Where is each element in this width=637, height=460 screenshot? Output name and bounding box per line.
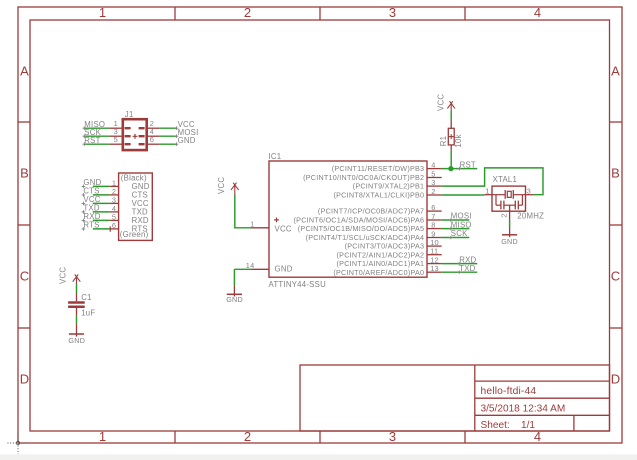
FTDI pin 1 GND: [110, 178, 150, 191]
svg-text:1uF: 1uF: [81, 309, 95, 318]
IC1 pin 8 PA5: [298, 220, 442, 233]
IC1 pin 11 PA2: [337, 247, 442, 260]
svg-text:IC1: IC1: [269, 152, 282, 161]
svg-text:SCK: SCK: [451, 229, 468, 238]
net label RST: [458, 160, 476, 170]
svg-text:6: 6: [112, 221, 116, 230]
wire IC1 pin 14 to ground: [234, 269, 251, 285]
connector J1 label: [125, 110, 134, 119]
net label TXD: [457, 264, 475, 274]
capacitor C1: [68, 294, 85, 315]
svg-text:TXD: TXD: [459, 264, 475, 273]
net label SCK: [449, 229, 468, 239]
svg-text:2: 2: [499, 213, 508, 217]
svg-text:11: 11: [430, 247, 438, 256]
wire VCC to R1: [450, 111, 452, 120]
svg-text:GND: GND: [501, 237, 518, 246]
svg-text:RTS: RTS: [83, 221, 99, 230]
IC1 body: [269, 161, 427, 277]
wire C1 to ground: [76, 315, 78, 323]
frame row labels right: [611, 64, 620, 387]
FTDI pin 6 RTS: [110, 221, 148, 234]
net label MISO: [449, 220, 472, 230]
svg-text:1: 1: [99, 5, 106, 20]
connector FTDI label (Black): [121, 174, 147, 183]
svg-text:14: 14: [246, 261, 255, 270]
XTAL1 pin 3: [526, 187, 534, 196]
svg-text:3/5/2018 12:34 AM: 3/5/2018 12:34 AM: [481, 403, 566, 414]
IC1 pin 5 PB2: [303, 169, 442, 182]
frame column labels top: [99, 5, 541, 20]
svg-text:(PCINT7/ICP/OC0B/ADC7)PA7: (PCINT7/ICP/OC0B/ADC7)PA7: [318, 207, 424, 216]
svg-text:1: 1: [250, 219, 254, 228]
svg-text:D: D: [20, 372, 29, 387]
wire IC1 pin 3 to XTAL1 pin 3: [442, 168, 543, 195]
svg-text:(PCINT2/AIN1/ADC2)PA2: (PCINT2/AIN1/ADC2)PA2: [337, 250, 425, 259]
svg-text:R1: R1: [439, 136, 448, 146]
svg-text:3: 3: [431, 178, 435, 187]
J1 pin 6: [148, 135, 160, 144]
XTAL1 label: [493, 175, 518, 184]
svg-text:B: B: [20, 166, 29, 181]
svg-text:8: 8: [431, 220, 435, 229]
svg-text:XTAL1: XTAL1: [493, 175, 518, 184]
wire net MOSI from J1: [159, 135, 176, 137]
IC1 value ATTINY44-SSU: [269, 280, 327, 289]
wire net TXD: [442, 271, 478, 273]
svg-text:GND: GND: [275, 265, 293, 274]
J1 pin 5: [109, 135, 121, 144]
connector J1 body: [123, 119, 147, 150]
svg-text:2: 2: [244, 429, 251, 444]
svg-text:20MHZ: 20MHZ: [517, 212, 544, 221]
title block date: [481, 403, 566, 414]
ground below C1: [68, 324, 85, 345]
XTAL1 pin 2: [499, 205, 509, 219]
svg-text:2: 2: [244, 5, 251, 20]
IC1 origin cross: [274, 218, 279, 223]
svg-text:1: 1: [485, 187, 489, 196]
connector FTDI body: [119, 173, 153, 240]
net label TXD: [82, 204, 100, 214]
resistor R1: [448, 119, 454, 150]
wire net RST to J1: [84, 143, 109, 145]
svg-text:(PCINT9/XTAL2)PB1: (PCINT9/XTAL2)PB1: [353, 182, 425, 191]
origin crosshair: [8, 432, 30, 454]
wire net GND to FTDI: [93, 185, 110, 187]
svg-text:10k: 10k: [454, 134, 463, 147]
svg-text:Sheet:: Sheet:: [481, 420, 510, 431]
XTAL1 crystal element: [492, 190, 526, 199]
IC1 pin 14 GND: [246, 261, 269, 270]
value 1uF: [81, 309, 95, 318]
wire net VCC to FTDI: [93, 202, 110, 204]
net label MOSI: [449, 212, 472, 222]
wire net MISO: [442, 228, 470, 230]
svg-text:VCC: VCC: [275, 224, 292, 233]
J1 pin 4: [148, 127, 160, 136]
svg-text:J1: J1: [125, 110, 134, 119]
J1 pin 3: [109, 127, 121, 136]
connector FTDI label (Green): [120, 230, 149, 239]
value 20MHZ: [517, 212, 544, 221]
IC1 pin 3 PB1: [353, 178, 442, 191]
net label VCC: [175, 120, 195, 130]
J1 pin 1: [109, 119, 121, 128]
resonator XTAL1 body: [492, 186, 526, 211]
svg-text:VCC: VCC: [217, 177, 226, 194]
svg-text:C1: C1: [81, 293, 91, 302]
svg-text:5: 5: [114, 135, 118, 144]
svg-text:RTS: RTS: [132, 225, 148, 234]
J1 pin 2: [148, 119, 160, 128]
connector J1 origin cross: [133, 134, 138, 139]
ground below IC1: [226, 285, 243, 304]
svg-text:A: A: [611, 64, 620, 79]
wire net VCC from J1: [159, 127, 176, 129]
svg-text:1: 1: [99, 429, 106, 444]
value 10k: [454, 134, 463, 147]
wire net TXD to FTDI: [93, 211, 110, 213]
svg-text:GND: GND: [178, 136, 196, 145]
IC1 label: [269, 152, 282, 161]
title block: [300, 365, 610, 431]
svg-text:D: D: [611, 372, 620, 387]
wire net RTS to FTDI: [93, 228, 110, 230]
net label GND: [175, 136, 196, 146]
svg-text:hello-ftdi-44: hello-ftdi-44: [481, 386, 537, 397]
IC1 pin 6 PA7: [318, 203, 442, 216]
IC1 pin 10 PA3: [345, 238, 442, 251]
XTAL1 internal capacitors: [496, 195, 522, 210]
wire net SCK to J1: [84, 135, 109, 137]
svg-text:1/1: 1/1: [521, 420, 535, 431]
FTDI pin 4 TXD: [110, 204, 148, 217]
svg-text:ATTINY44-SSU: ATTINY44-SSU: [269, 280, 327, 289]
wire IC1 pin 2 to XTAL1 pin 1: [442, 194, 485, 196]
net label RXD: [82, 212, 101, 222]
wire XTAL1 pin 2 to ground: [509, 219, 511, 228]
VCC symbol above R1: [437, 94, 455, 111]
wire net CTS to FTDI: [93, 194, 110, 196]
svg-text:(PCINT0/AREF/ADC0)PA0: (PCINT0/AREF/ADC0)PA0: [333, 268, 424, 277]
VCC symbol above C1: [59, 267, 81, 284]
IC1 pin 13 PA0: [333, 264, 441, 277]
net label GND: [82, 178, 102, 188]
ground below XTAL1: [501, 228, 518, 246]
svg-text:(PCINT11/RESET/DW)PB3: (PCINT11/RESET/DW)PB3: [332, 164, 425, 173]
svg-text:MISO: MISO: [451, 220, 472, 229]
wire VCC to IC1 pin 1: [235, 195, 252, 228]
net label RST: [83, 136, 101, 146]
net label MISO: [83, 120, 106, 130]
svg-text:GND: GND: [226, 295, 243, 304]
svg-text:(PCINT5/OC1B/MISO/DO/ADC5)PA5: (PCINT5/OC1B/MISO/DO/ADC5)PA5: [298, 224, 425, 233]
net label SCK: [83, 128, 102, 138]
VCC symbol for IC1: [217, 177, 239, 195]
svg-text:6: 6: [431, 203, 435, 212]
wire VCC to C1: [76, 284, 78, 295]
svg-text:C: C: [20, 269, 29, 284]
svg-text:VCC: VCC: [437, 94, 446, 111]
node RST junction: [448, 166, 453, 171]
IC1 pin 2 PB0: [333, 187, 441, 200]
frame column labels bottom: [99, 429, 541, 444]
connector FTDI origin cross: [109, 226, 111, 231]
svg-text:GND: GND: [68, 336, 85, 345]
net label MOSI: [175, 128, 199, 138]
svg-text:VCC: VCC: [59, 267, 68, 284]
IC1 GND pin name: [275, 265, 293, 274]
svg-text:3: 3: [389, 5, 396, 20]
FTDI pin 5 RXD: [110, 212, 149, 225]
IC1 pin 4 PB3: [332, 160, 442, 173]
IC1 pin 12 PA1: [337, 255, 442, 268]
svg-text:4: 4: [431, 160, 435, 169]
label R1: [439, 136, 448, 146]
svg-text:B: B: [611, 166, 620, 181]
svg-text:6: 6: [150, 135, 154, 144]
FTDI pin 2 CTS: [110, 187, 148, 200]
net label VCC: [82, 195, 101, 205]
connector J1 contacts: [125, 128, 145, 144]
app background strip bottom: [0, 454, 637, 460]
FTDI pin 3 VCC: [110, 195, 149, 208]
IC1 VCC pin name: [275, 224, 292, 233]
XTAL1 pin 1: [484, 187, 492, 196]
svg-text:C: C: [611, 269, 620, 284]
svg-text:RST: RST: [460, 160, 476, 169]
svg-text:2: 2: [431, 187, 435, 196]
wire net RST: [442, 168, 478, 170]
net label RXD: [457, 255, 476, 265]
svg-text:13: 13: [430, 264, 439, 273]
net label CTS: [82, 187, 100, 197]
frame row labels left: [20, 64, 29, 387]
wire net MISO to J1: [84, 127, 109, 129]
wire net GND from J1: [159, 143, 176, 145]
title block sheet: [481, 420, 536, 431]
title block text hello-ftdi-44: [481, 386, 537, 397]
IC1 pin 1 VCC: [250, 219, 269, 228]
svg-text:4: 4: [534, 5, 541, 20]
net label RTS: [82, 221, 100, 231]
svg-text:3: 3: [527, 187, 531, 196]
wire R1 to RST node: [450, 151, 452, 169]
svg-text:RST: RST: [84, 136, 100, 145]
wire net MOSI: [442, 219, 470, 221]
svg-text:(PCINT8/XTAL1/CLKI)PB0: (PCINT8/XTAL1/CLKI)PB0: [333, 191, 424, 200]
wire net SCK: [442, 237, 470, 239]
label C1: [81, 293, 91, 302]
svg-text:A: A: [20, 64, 29, 79]
wire net RXD: [442, 263, 478, 265]
IC1 pin 9 PA4: [306, 229, 442, 242]
wire net RXD to FTDI: [93, 219, 110, 221]
IC1 pin 7 PA6: [294, 212, 442, 225]
